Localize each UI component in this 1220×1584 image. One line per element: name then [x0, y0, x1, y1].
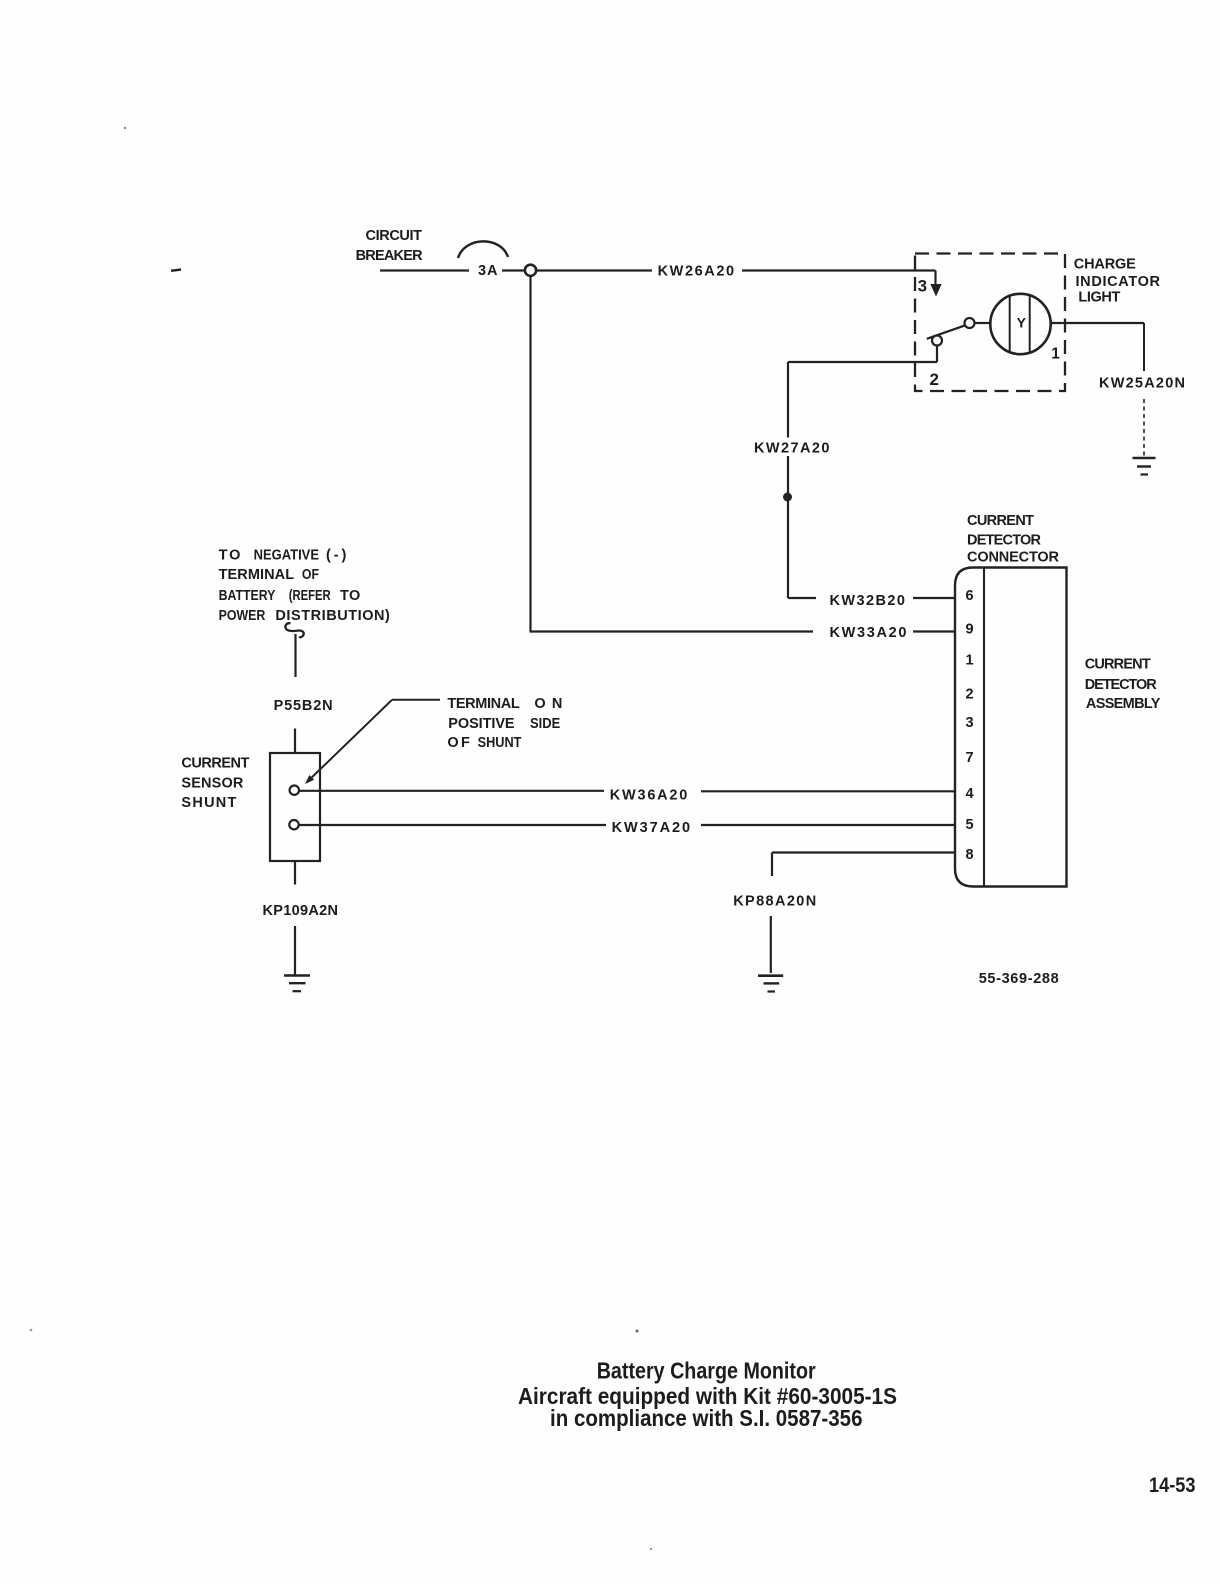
- svg-text:(REFER: (REFER: [289, 588, 331, 604]
- svg-text:POSITIVE: POSITIVE: [448, 716, 515, 732]
- svg-text:P55B2N: P55B2N: [274, 698, 333, 714]
- svg-text:KW26A20: KW26A20: [658, 263, 735, 279]
- svg-text:4: 4: [965, 786, 973, 802]
- svg-text:CURRENT: CURRENT: [181, 755, 249, 771]
- svg-text:ON: ON: [534, 696, 562, 712]
- svg-text:CURRENT: CURRENT: [1085, 657, 1151, 673]
- svg-text:SHUNT: SHUNT: [478, 735, 522, 751]
- svg-text:TERMINAL: TERMINAL: [219, 567, 295, 583]
- svg-text:KW32B20: KW32B20: [830, 593, 906, 609]
- svg-text:DISTRIBUTION): DISTRIBUTION): [275, 608, 390, 624]
- svg-text:TO: TO: [219, 547, 241, 563]
- svg-text:DETECTOR: DETECTOR: [1085, 677, 1158, 693]
- svg-text:BATTERY: BATTERY: [219, 588, 276, 604]
- svg-text:6: 6: [965, 588, 973, 604]
- svg-text:3A: 3A: [478, 263, 498, 279]
- svg-text:3: 3: [918, 276, 927, 295]
- svg-text:14-53: 14-53: [1149, 1473, 1196, 1497]
- svg-text:KW25A20N: KW25A20N: [1099, 375, 1185, 391]
- svg-text:55-369-288: 55-369-288: [979, 971, 1059, 987]
- svg-text:NEGATIVE: NEGATIVE: [254, 547, 320, 563]
- svg-text:7: 7: [965, 750, 973, 766]
- svg-text:TO: TO: [340, 588, 360, 604]
- svg-text:1: 1: [1051, 346, 1060, 363]
- svg-text:in compliance with S.I. 0587-3: in compliance with S.I. 0587-356: [550, 1405, 863, 1431]
- svg-text:OF: OF: [447, 735, 470, 751]
- svg-text:SIDE: SIDE: [530, 716, 560, 732]
- svg-text:CHARGE: CHARGE: [1074, 256, 1136, 272]
- svg-text:DETECTOR: DETECTOR: [967, 533, 1042, 549]
- svg-text:KW27A20: KW27A20: [754, 441, 830, 457]
- svg-text:8: 8: [965, 847, 973, 863]
- svg-text:KP88A20N: KP88A20N: [733, 893, 816, 909]
- svg-text:2: 2: [965, 686, 973, 702]
- svg-text:LIGHT: LIGHT: [1078, 290, 1120, 306]
- svg-text:(-): (-): [326, 547, 346, 563]
- svg-text:KW37A20: KW37A20: [612, 820, 691, 836]
- svg-text:Battery Charge Monitor: Battery Charge Monitor: [597, 1358, 816, 1384]
- svg-text:1: 1: [965, 653, 973, 669]
- svg-text:9: 9: [965, 622, 973, 638]
- svg-text:INDICATOR: INDICATOR: [1076, 274, 1161, 290]
- svg-text:TERMINAL: TERMINAL: [447, 696, 519, 712]
- svg-text:BREAKER: BREAKER: [356, 248, 424, 264]
- svg-text:2: 2: [929, 370, 938, 389]
- svg-text:OF: OF: [302, 567, 319, 583]
- svg-text:KW36A20: KW36A20: [610, 787, 688, 803]
- svg-text:SHUNT: SHUNT: [181, 795, 236, 811]
- svg-text:POWER: POWER: [219, 608, 266, 624]
- svg-text:CURRENT: CURRENT: [967, 513, 1034, 529]
- svg-text:CONNECTOR: CONNECTOR: [967, 550, 1060, 566]
- svg-text:3: 3: [965, 715, 973, 731]
- svg-text:CIRCUIT: CIRCUIT: [366, 228, 423, 244]
- svg-text:ASSEMBLY: ASSEMBLY: [1086, 696, 1161, 712]
- svg-text:KW33A20: KW33A20: [830, 625, 907, 641]
- svg-text:Y: Y: [1017, 315, 1027, 331]
- svg-text:5: 5: [965, 817, 973, 833]
- svg-text:KP109A2N: KP109A2N: [263, 903, 339, 919]
- svg-text:SENSOR: SENSOR: [181, 776, 244, 792]
